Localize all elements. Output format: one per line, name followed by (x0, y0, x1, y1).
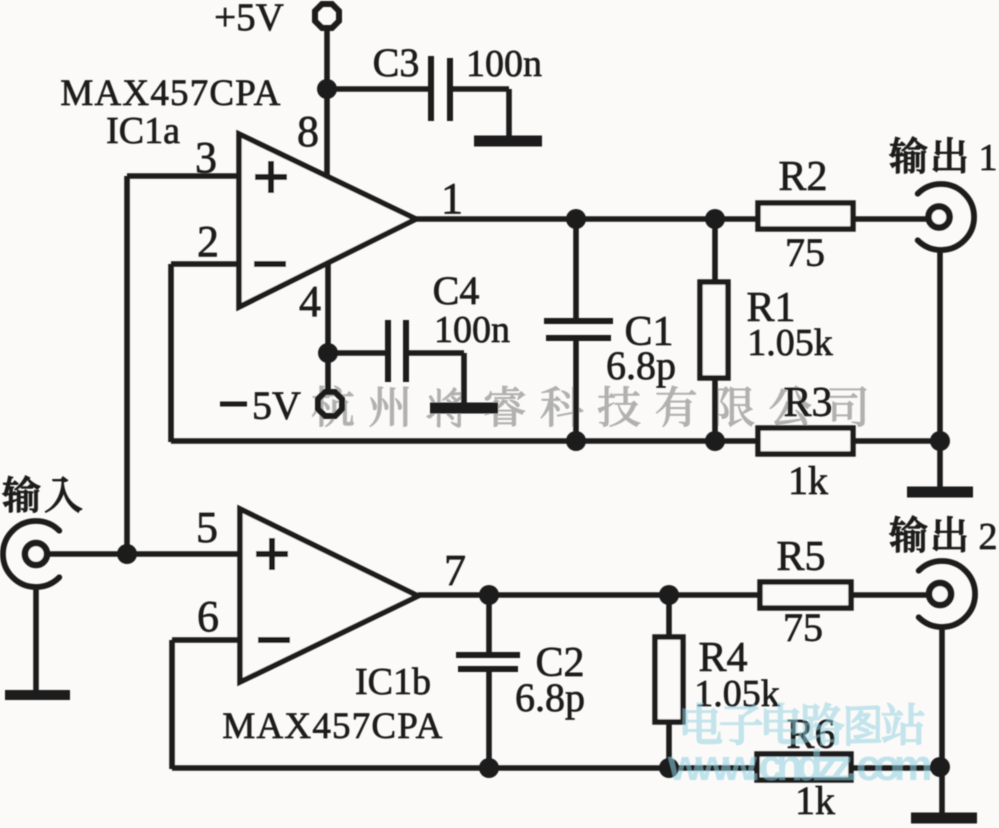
svg-text:1: 1 (441, 174, 463, 223)
wire input connector to ground (33, 587, 39, 690)
svg-text:1: 1 (979, 137, 998, 179)
wire output1 connector to ground rail (937, 250, 943, 488)
capacitor C2 (456, 652, 520, 658)
wire +5V node to C3 (324, 86, 430, 92)
wire input riser to pin 3 (124, 176, 130, 554)
svg-text:C4: C4 (433, 268, 480, 313)
op-amp IC1b minus input mark (258, 637, 290, 643)
wire feedback rail bottom section (172, 765, 940, 771)
watermark text 杭州将睿科技有限公司 (312, 386, 866, 428)
wire C2 top (486, 595, 492, 653)
connector output 1 outer (918, 184, 974, 250)
ground for C4 (430, 403, 498, 414)
connector input outer (3, 521, 59, 587)
wire R1 top (712, 219, 718, 284)
wire +5V terminal to op-amp U1a pin 8 (324, 30, 330, 177)
op-amp IC1a plus input mark (255, 174, 287, 180)
connector input inner (25, 543, 47, 565)
connector output 1 inner (929, 207, 950, 228)
svg-text:7: 7 (444, 546, 466, 595)
node output2/R4 junction (659, 585, 679, 605)
svg-text:100n: 100n (434, 309, 510, 351)
svg-text:5: 5 (196, 503, 218, 552)
wire op-amp IC1a output pin 1 (416, 216, 929, 222)
resistor R5 (760, 582, 851, 608)
svg-text:2: 2 (197, 217, 219, 266)
wire C3 to ground (452, 86, 509, 92)
node rail2/R4 (659, 758, 679, 778)
svg-text:6: 6 (197, 592, 219, 641)
svg-text:R5: R5 (776, 534, 825, 580)
node rail2/output2 ground junction (930, 757, 950, 777)
wire C1 bottom (573, 341, 579, 442)
svg-text:C3: C3 (373, 40, 420, 85)
node rail1/R1 (705, 431, 725, 451)
wire output2 connector to ground (939, 627, 945, 813)
svg-text:+5V: +5V (214, 0, 284, 39)
wire R4 top (666, 595, 672, 639)
node output1/C1 junction (566, 209, 586, 229)
power label -5V (220, 402, 247, 407)
svg-text:1.05k: 1.05k (747, 322, 833, 364)
capacitor C4 (385, 320, 391, 382)
node rail2/C2 (479, 758, 499, 778)
svg-text:IC1a: IC1a (106, 110, 180, 152)
svg-text:6.8p: 6.8p (606, 343, 676, 388)
resistor R1 (700, 282, 728, 378)
svg-text:75: 75 (783, 605, 823, 650)
svg-text:IC1b: IC1b (355, 661, 431, 703)
ground for output 1 (907, 487, 973, 498)
node rail1/C1 (566, 431, 586, 451)
svg-text:100n: 100n (466, 43, 542, 85)
resistor R4 (655, 637, 683, 722)
wire pin 4 to -5V (325, 261, 331, 391)
node pin4/C4 junction (318, 343, 338, 363)
svg-text:MAX457CPA: MAX457CPA (222, 706, 443, 747)
wire pin 6 to feedback rail (169, 640, 175, 769)
svg-text:R2: R2 (778, 154, 827, 200)
resistor R6 (757, 754, 851, 780)
capacitor C1 (544, 318, 613, 324)
svg-text:1k: 1k (788, 458, 828, 503)
op-amp IC1b plus input mark (256, 551, 288, 557)
terminal -5V (318, 392, 342, 416)
output 2 label 输出 2 (890, 516, 966, 552)
wire feedback rail top section (171, 438, 940, 444)
svg-text:6.8p: 6.8p (515, 675, 585, 720)
wire R1 bottom (712, 378, 718, 442)
wire pin 2 input (171, 261, 239, 267)
resistor R2 (758, 203, 853, 229)
node +5V/C3 junction (317, 79, 337, 99)
connector output 2 outer (919, 561, 975, 627)
node output1/R1 junction (705, 209, 725, 229)
input label 输入 (3, 476, 82, 512)
svg-text:4: 4 (299, 277, 321, 326)
wire pin4 node to C4 (328, 350, 386, 356)
op-amp IC1a minus input mark (254, 261, 286, 267)
node input/riser junction (117, 544, 137, 564)
wire pin 3 input (127, 173, 239, 179)
terminal +5V (315, 4, 339, 28)
svg-text:R3: R3 (783, 380, 832, 426)
wire pin 2 to feedback rail (168, 264, 174, 442)
connector output 2 inner (929, 583, 951, 605)
wire C4 to ground (409, 350, 464, 356)
op-amp IC1a (239, 134, 416, 307)
svg-text:www. cndzz. com: www. cndzz. com (667, 741, 931, 790)
ground for C3 (474, 136, 542, 147)
svg-text:2: 2 (979, 516, 998, 558)
output 1 label 输出 1 (890, 137, 966, 173)
svg-text:5V: 5V (252, 383, 301, 428)
node rail1/output1 ground junction (930, 431, 950, 451)
wire R4 bottom (666, 722, 672, 769)
wire C2 bottom (486, 671, 492, 769)
resistor R3 (758, 428, 853, 454)
svg-text:MAX457CPA: MAX457CPA (60, 73, 281, 114)
ground for output 2 (911, 813, 977, 824)
ground for input (5, 690, 70, 700)
watermark text 电子电路图站 (683, 703, 924, 745)
node output2/C2 junction (479, 585, 499, 605)
svg-text:75: 75 (785, 230, 825, 275)
svg-text:8: 8 (297, 107, 319, 156)
op-amp IC1b (240, 509, 418, 682)
capacitor C3 (428, 56, 434, 121)
wire pin 6 input (172, 637, 240, 643)
wire op-amp IC1b output pin 7 (418, 592, 929, 598)
wire input to op-amp IC1b pin 5 (49, 551, 240, 557)
wire C1 top (573, 219, 579, 319)
